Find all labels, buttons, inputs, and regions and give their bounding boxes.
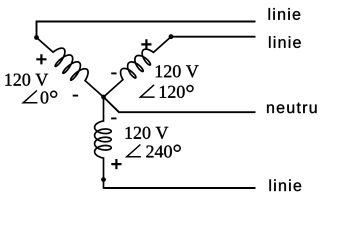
angle symbol (phase 2) [140, 85, 154, 97]
winding coil 1 (120 V angle 0) from node A to neutral node [37, 38, 104, 98]
wire: neutral from center node to right [104, 97, 256, 112]
minus mark coil 2 [111, 72, 116, 74]
angle symbol (phase 1) [23, 91, 37, 103]
label linie (top) [269, 8, 301, 20]
label 0 deg [41, 91, 49, 103]
node A (top-left junction dot) [34, 35, 39, 40]
label neutru [267, 103, 316, 114]
angle symbol (phase 3) [127, 145, 141, 157]
label 120 V (phase 1) [5, 74, 48, 86]
minus mark coil 3 [111, 117, 116, 119]
winding coil 3 (120 V angle 240) from neutral node down [95, 97, 112, 188]
label 120 deg [160, 86, 185, 98]
plus mark coil 3 [111, 159, 121, 169]
label 120 V (phase 2) [156, 65, 199, 77]
node B (second line junction dot) [169, 34, 174, 39]
label 240 deg [146, 145, 172, 157]
node C (bottom junction dot) [101, 177, 106, 182]
minus mark coil 1 [73, 95, 78, 97]
plus mark coil 2 [141, 39, 151, 49]
node N (center neutral junction dot) [101, 95, 106, 100]
plus mark coil 1 [36, 54, 46, 64]
label linie (second) [269, 36, 301, 48]
wire: bottom linie horizontal [104, 187, 256, 189]
wire: top line from corner to right [37, 22, 256, 38]
label linie (bottom) [269, 179, 301, 191]
winding coil 2 (120 V angle 120) from neutral node to node B [104, 37, 172, 97]
label 120 V (phase 3) [126, 127, 169, 139]
wire: second linie horizontal [171, 36, 256, 38]
